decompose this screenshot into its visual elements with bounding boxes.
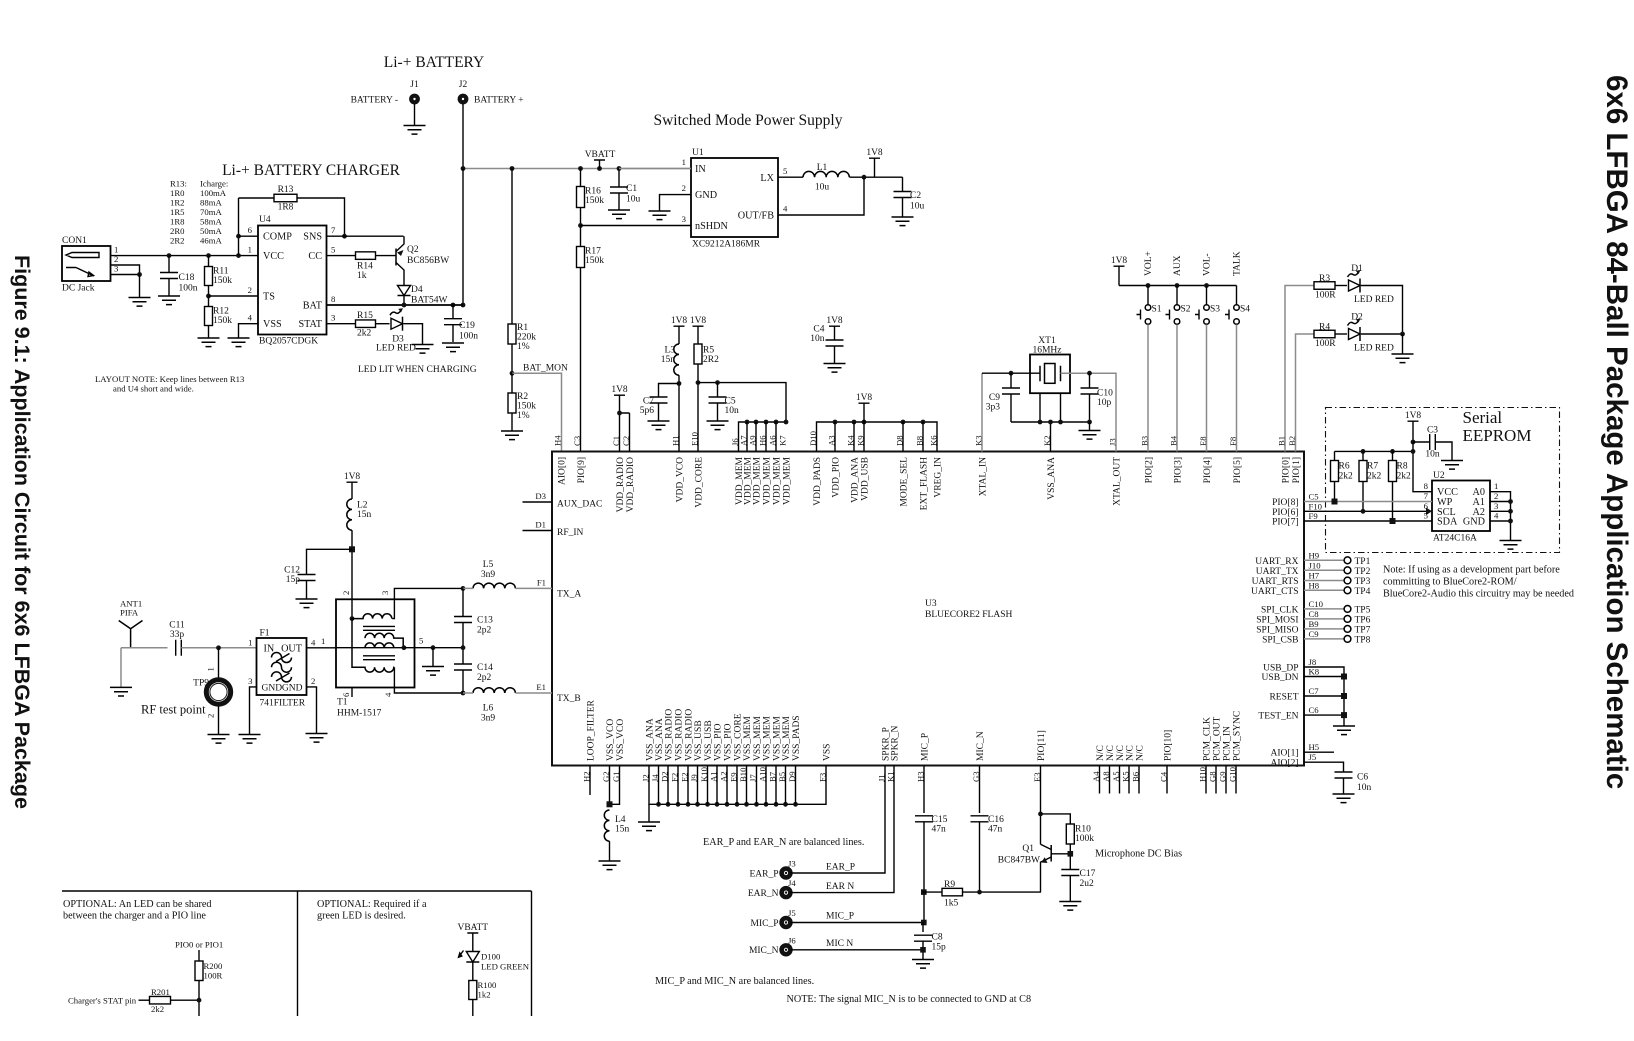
wire TS pin (209, 295, 259, 297)
ground F1 pin2 (306, 734, 328, 743)
svg-text:U4: U4 (259, 215, 271, 225)
svg-text:S2: S2 (1181, 305, 1191, 315)
svg-text:2k2: 2k2 (1339, 472, 1354, 482)
ground U2 (1500, 541, 1522, 550)
svg-text:VSS_ANA: VSS_ANA (646, 718, 656, 761)
svg-text:K7: K7 (778, 435, 788, 446)
resistor R201 body (150, 996, 171, 1004)
wire COMP pin (239, 235, 259, 237)
wire EAR_P to SPKR_P J1 (791, 766, 886, 874)
svg-text:150k: 150k (585, 196, 604, 206)
wire to TP6 (1304, 618, 1344, 620)
svg-text:VCC: VCC (263, 251, 284, 262)
svg-text:2: 2 (1494, 491, 1498, 501)
svg-text:1V8: 1V8 (690, 316, 707, 326)
svg-text:nSHDN: nSHDN (695, 221, 728, 232)
wire 1V8 to C1 C2 pins (620, 395, 630, 451)
svg-text:5: 5 (419, 636, 423, 646)
svg-text:MIC_P: MIC_P (921, 733, 931, 761)
svg-text:2: 2 (248, 285, 252, 295)
svg-text:VDD_VCO: VDD_VCO (676, 457, 686, 503)
svg-text:C18: C18 (179, 273, 195, 283)
svg-text:PIO[2]: PIO[2] (1145, 457, 1155, 483)
svg-text:C17: C17 (1080, 869, 1096, 879)
svg-text:10n: 10n (810, 334, 825, 344)
resistor R15 body (356, 320, 376, 328)
svg-text:58mA: 58mA (200, 217, 222, 227)
svg-text:BlueCore2-Audio this circuitry: BlueCore2-Audio this circuitry may be ne… (1383, 589, 1574, 600)
ground C3 (1441, 461, 1463, 470)
resistor R11 body (205, 267, 213, 286)
T1 pin4 wire (394, 688, 463, 694)
switch S4 TALK (1236, 286, 1238, 305)
wire CON1 pin1 to U4 VCC (111, 255, 259, 257)
svg-text:2k2: 2k2 (1397, 472, 1412, 482)
ground antenna (110, 687, 132, 696)
svg-text:10u: 10u (910, 202, 925, 212)
ground C2 (892, 217, 914, 226)
svg-text:XTAL_IN: XTAL_IN (979, 457, 989, 496)
svg-text:XC9212A186MR: XC9212A186MR (692, 240, 761, 250)
testpoint TP2 (1344, 567, 1351, 574)
resistor R13 1R8 (239, 197, 275, 199)
wire VSS ground bus (649, 766, 826, 805)
power 1V8 C4 (829, 326, 840, 340)
diode D4 BAT54W (398, 286, 411, 296)
ground VSS bus (638, 822, 660, 831)
svg-text:MIC_P: MIC_P (826, 912, 854, 922)
svg-text:VSS_MEM: VSS_MEM (743, 716, 753, 761)
U3 left pin AUX_DAC D3 (523, 501, 553, 503)
capacitor C6 10n (1335, 772, 1353, 778)
svg-text:LOOP_FILTER: LOOP_FILTER (587, 699, 597, 761)
ground LEDs (1392, 354, 1414, 363)
svg-text:70mA: 70mA (200, 207, 222, 217)
svg-text:J1: J1 (410, 80, 419, 90)
ground TP9 (208, 735, 230, 744)
capacitor C10 10p (1089, 373, 1091, 388)
ground C17 (1059, 902, 1081, 911)
svg-text:R12: R12 (213, 307, 229, 317)
svg-text:TALK: TALK (1233, 251, 1243, 276)
wire VDD_MEM bus (739, 422, 787, 452)
svg-text:50mA: 50mA (200, 226, 222, 236)
svg-text:1V8: 1V8 (856, 393, 873, 403)
wire D3 to ground (404, 324, 423, 345)
wire D2 cathode (1361, 333, 1403, 335)
svg-text:5: 5 (783, 166, 787, 176)
svg-text:LED RED: LED RED (1354, 295, 1394, 305)
svg-text:VSS_PIO: VSS_PIO (724, 723, 734, 761)
resistor R100 1k2 (469, 981, 477, 1000)
svg-text:15n: 15n (357, 510, 372, 520)
svg-text:VSS: VSS (823, 744, 833, 761)
svg-text:6x6 LFBGA 84-Ball Package Appl: 6x6 LFBGA 84-Ball Package Application Sc… (1600, 75, 1633, 789)
svg-text:N/C: N/C (1106, 745, 1116, 761)
svg-text:4: 4 (1494, 511, 1499, 521)
svg-text:C6: C6 (1357, 773, 1368, 783)
wire J2 to BAT pin (327, 169, 464, 306)
svg-text:150k: 150k (585, 256, 604, 266)
diode D2 LED RED (1349, 329, 1361, 340)
svg-text:3n9: 3n9 (481, 570, 496, 580)
ground CON1 (129, 298, 151, 307)
svg-text:100R: 100R (1315, 291, 1336, 301)
svg-text:6: 6 (248, 225, 253, 235)
svg-text:N/C: N/C (1096, 745, 1106, 761)
capacitor C17 2u2 (1061, 870, 1079, 876)
svg-text:GND: GND (262, 684, 283, 694)
capacitor C11 33p (176, 640, 182, 656)
wire S2 to chip (1176, 325, 1178, 452)
svg-text:10n: 10n (1425, 450, 1440, 460)
wire SNS pin (327, 235, 345, 237)
svg-text:1: 1 (248, 245, 252, 255)
svg-text:Charger's STAT pin: Charger's STAT pin (68, 996, 137, 1006)
svg-text:100R: 100R (204, 971, 223, 981)
svg-text:8: 8 (331, 294, 336, 304)
svg-text:OUT/FB: OUT/FB (738, 211, 774, 222)
svg-text:L4: L4 (615, 815, 626, 825)
svg-text:BC847BW: BC847BW (998, 856, 1040, 866)
diode D100 LED GREEN (466, 952, 479, 963)
svg-text:Note: If using as a developmen: Note: If using as a development part bef… (1383, 565, 1560, 576)
node optional boxes frame (62, 891, 532, 1016)
svg-text:F9: F9 (1309, 511, 1318, 521)
svg-text:H4: H4 (553, 435, 563, 446)
svg-text:7: 7 (1424, 491, 1429, 501)
resistor R7 2k2 (1362, 451, 1364, 460)
svg-text:150k: 150k (213, 276, 232, 286)
wire T1 pin3 inside (392, 599, 394, 618)
inductor L1 10u (778, 176, 803, 178)
svg-text:Q2: Q2 (407, 245, 419, 255)
svg-text:MODE_SEL: MODE_SEL (900, 457, 910, 507)
ground F1 pin3 (239, 735, 261, 744)
ground U4 VSS (228, 338, 250, 347)
filter F1 741FILTER (257, 638, 307, 695)
T1 pin6 stub (351, 688, 353, 698)
wire USB_DP USB_DN RESET TEST_EN to ground (1304, 667, 1344, 726)
svg-text:PIFA: PIFA (120, 608, 139, 618)
power 1V8 VDD_RADIO (614, 394, 625, 396)
svg-text:VSS_CORE: VSS_CORE (734, 713, 744, 761)
svg-text:R100: R100 (478, 980, 497, 990)
switch S1 VOL+ (1147, 286, 1149, 305)
svg-text:PIO[9]: PIO[9] (577, 457, 587, 483)
wire VBATT to IN (619, 168, 691, 170)
connector J1 BATTERY - (411, 96, 418, 103)
svg-text:MIC_N: MIC_N (749, 946, 779, 956)
svg-text:C6: C6 (1309, 705, 1320, 715)
svg-text:L3: L3 (664, 346, 675, 356)
svg-text:TP8: TP8 (1355, 635, 1371, 645)
U3 left pin RF_IN D1 (523, 530, 553, 532)
svg-text:TX_B: TX_B (557, 694, 581, 704)
svg-text:GND: GND (282, 684, 303, 694)
resistor R201 2k2 (139, 999, 150, 1001)
svg-text:R14: R14 (357, 262, 373, 272)
svg-text:SPI_CSB: SPI_CSB (1262, 635, 1298, 645)
CON1 barrel pin symbol (66, 253, 99, 258)
svg-text:VDD_RADIO: VDD_RADIO (626, 457, 636, 513)
capacitor C7 5p6 (659, 384, 680, 398)
svg-text:VSS: VSS (263, 319, 282, 330)
ground C12 (296, 599, 318, 608)
wire EAR_N to SPKR_N K1 (791, 766, 895, 893)
svg-text:1V8: 1V8 (1405, 411, 1422, 421)
wire CON1 to ground (139, 275, 141, 298)
wire C15 to MIC_P (923, 822, 925, 923)
svg-text:C5: C5 (1309, 492, 1319, 502)
connector CON1 DC Jack (62, 246, 111, 281)
wire MIC_P line (791, 922, 924, 924)
wire PIO[7] to SDA (1304, 520, 1432, 522)
svg-text:C5: C5 (725, 397, 736, 407)
F1 filter squiggles (272, 653, 292, 682)
svg-text:TP1: TP1 (1355, 557, 1371, 567)
svg-text:R4: R4 (1319, 323, 1330, 333)
svg-text:47n: 47n (988, 825, 1003, 835)
resistor R15 2k2 (327, 323, 356, 325)
resistor R1 220k 1% (511, 169, 513, 325)
svg-text:and U4 short and wide.: and U4 short and wide. (113, 384, 194, 394)
wire C11 to F1 IN (181, 647, 256, 649)
svg-text:7: 7 (331, 225, 336, 235)
svg-text:R9: R9 (944, 880, 955, 890)
svg-text:15p: 15p (932, 943, 947, 953)
capacitor C9 3p3 (1010, 373, 1012, 388)
ground C5 (707, 421, 729, 430)
wire S1 to chip (1147, 325, 1149, 452)
svg-text:NOTE: The signal MIC_N is to b: NOTE: The signal MIC_N is to be connecte… (787, 994, 1032, 1005)
resistor R14 body (356, 252, 376, 260)
svg-text:R15: R15 (357, 311, 373, 321)
wire VSS_VCO to L4 (610, 766, 620, 805)
CON1 switch contact (66, 268, 94, 277)
testpoint TP7 (1344, 626, 1351, 633)
svg-text:RESET: RESET (1269, 693, 1298, 703)
svg-text:green LED is desired.: green LED is desired. (317, 911, 406, 922)
wire U4 VSS to ground (239, 324, 259, 338)
svg-text:C10: C10 (1097, 389, 1113, 399)
svg-text:1: 1 (1494, 481, 1498, 491)
svg-text:LAYOUT NOTE: Keep lines betwee: LAYOUT NOTE: Keep lines between R13 (95, 374, 244, 384)
svg-text:MIC_P: MIC_P (751, 919, 779, 929)
svg-text:1V8: 1V8 (671, 316, 688, 326)
svg-text:R11: R11 (213, 267, 229, 277)
svg-text:TS: TS (263, 292, 275, 303)
svg-text:C3: C3 (1427, 426, 1438, 436)
svg-text:R200: R200 (204, 961, 223, 971)
resistor R11 150k (208, 256, 210, 267)
svg-text:R17: R17 (585, 247, 601, 257)
svg-text:BATTERY +: BATTERY + (474, 96, 524, 106)
wire TP9 to ground (218, 707, 220, 735)
svg-text:Serial: Serial (1463, 408, 1503, 427)
svg-text:TP2: TP2 (1355, 567, 1371, 577)
wire R13 left to VCC (238, 198, 240, 256)
svg-text:BLUECORE2 FLASH: BLUECORE2 FLASH (925, 610, 1012, 620)
svg-text:TX_A: TX_A (557, 590, 581, 600)
svg-text:2R0: 2R0 (170, 226, 185, 236)
ground C7 (648, 421, 670, 430)
svg-text:UART_CTS: UART_CTS (1251, 587, 1298, 597)
testpoint TP4 (1344, 587, 1351, 594)
wire F1 OUT to T1 pin1 (307, 647, 337, 649)
svg-text:1V8: 1V8 (1111, 256, 1128, 266)
connector J4 EAR_N jack (782, 888, 791, 897)
svg-text:CC: CC (308, 251, 322, 262)
switch S3 VOL- (1206, 286, 1208, 305)
svg-text:TP3: TP3 (1355, 577, 1371, 587)
svg-text:UART_RX: UART_RX (1255, 557, 1298, 567)
svg-text:1k: 1k (357, 271, 367, 281)
svg-text:EAR_P: EAR_P (749, 870, 778, 880)
capacitor C15 47n (923, 766, 925, 814)
svg-text:DC Jack: DC Jack (62, 284, 95, 294)
svg-text:H5: H5 (1309, 742, 1320, 752)
svg-text:C2: C2 (910, 191, 921, 201)
svg-text:VDD_MEM: VDD_MEM (753, 456, 763, 505)
svg-text:1%: 1% (517, 342, 530, 352)
power 1V8 L3 (674, 326, 685, 344)
svg-text:EXT_FLASH: EXT_FLASH (920, 457, 930, 510)
capacitor C19 plates (444, 319, 462, 325)
svg-text:PIO[1]: PIO[1] (1292, 457, 1302, 483)
svg-text:88mA: 88mA (200, 198, 222, 208)
svg-text:BC856BW: BC856BW (407, 256, 449, 266)
svg-text:2R2: 2R2 (703, 355, 719, 365)
T1 core 2 (363, 656, 395, 660)
diode D1 LED RED (1349, 280, 1361, 291)
svg-text:1k5: 1k5 (944, 899, 959, 909)
wire F1 pin3 to ground (250, 687, 257, 735)
svg-text:VDD_MEM: VDD_MEM (763, 456, 773, 505)
svg-text:J3: J3 (788, 859, 796, 869)
svg-text:VSS_ANA: VSS_ANA (655, 718, 665, 761)
IC U1 XC9212A186MR (691, 158, 778, 237)
capacitor C1 10u (618, 169, 620, 188)
wire F1 pin2 to ground (307, 687, 317, 734)
wire EEPROM pullup bus (1335, 442, 1433, 492)
capacitor C18 100n (168, 256, 170, 273)
inductor L3 body (674, 344, 679, 375)
svg-text:R201: R201 (151, 987, 170, 997)
power 1V8 L2 (347, 482, 358, 499)
svg-text:B9: B9 (1309, 619, 1319, 629)
svg-text:1: 1 (321, 636, 325, 646)
wire C16 to bias junction (979, 822, 981, 892)
svg-text:EAR N: EAR N (826, 882, 854, 892)
svg-text:VSS_PADS: VSS_PADS (792, 715, 802, 761)
capacitor C3 10n (1413, 441, 1430, 443)
svg-text:USB_DP: USB_DP (1263, 664, 1298, 674)
svg-text:2u2: 2u2 (1080, 879, 1095, 889)
svg-text:5: 5 (331, 245, 335, 255)
inductor L2 body (347, 499, 352, 530)
inductor L5 body (473, 583, 515, 588)
svg-text:TP9: TP9 (193, 679, 209, 689)
svg-text:R6: R6 (1339, 462, 1350, 472)
svg-text:R5: R5 (703, 346, 714, 356)
capacitor C14 2p2 (462, 648, 464, 664)
svg-text:RF_IN: RF_IN (557, 528, 584, 538)
svg-text:5p6: 5p6 (640, 406, 655, 416)
IC U2 AT24C16A (1432, 481, 1490, 532)
svg-text:VSS_MEM: VSS_MEM (773, 716, 783, 761)
svg-text:EAR_P: EAR_P (826, 863, 855, 873)
svg-text:C1: C1 (626, 184, 637, 194)
svg-text:SDA: SDA (1437, 517, 1458, 528)
svg-text:D2: D2 (1351, 313, 1363, 323)
svg-text:AUX: AUX (1173, 255, 1183, 276)
svg-text:33p: 33p (170, 630, 185, 640)
resistor R10 100k (1041, 814, 1071, 824)
svg-text:between the charger and a PIO: between the charger and a PIO line (63, 911, 206, 922)
ground C19 (442, 343, 464, 352)
svg-text:PIO[4]: PIO[4] (1203, 457, 1213, 483)
svg-text:SPI_CLK: SPI_CLK (1261, 605, 1299, 615)
wire J1 to ground (414, 104, 416, 126)
svg-text:C8: C8 (932, 933, 943, 943)
svg-text:8: 8 (1424, 481, 1429, 491)
svg-text:L5: L5 (483, 560, 494, 570)
svg-text:150k: 150k (213, 316, 232, 326)
IC U3 BLUECORE2 FLASH body (552, 452, 1304, 766)
svg-text:2k2: 2k2 (357, 329, 372, 339)
svg-text:VDD_CORE: VDD_CORE (695, 457, 705, 508)
svg-text:D1: D1 (535, 520, 546, 530)
wire XTAL_OUT J3 (1061, 373, 1117, 451)
T1 pin2 wire (351, 599, 353, 618)
svg-text:N/C: N/C (1116, 745, 1126, 761)
svg-text:4: 4 (248, 313, 253, 323)
svg-text:TP4: TP4 (1355, 587, 1371, 597)
wire nSHDN (581, 225, 692, 227)
svg-text:committing to BlueCore2-ROM/: committing to BlueCore2-ROM/ (1383, 577, 1517, 588)
svg-text:AIO[1]: AIO[1] (1271, 749, 1299, 759)
svg-text:EAR_N: EAR_N (748, 889, 779, 899)
svg-text:U1: U1 (692, 148, 704, 158)
svg-text:J8: J8 (1309, 657, 1317, 667)
capacitor C13 2p2 (462, 588, 464, 616)
svg-text:VSS_MEM: VSS_MEM (782, 716, 792, 761)
svg-text:LED LIT WHEN CHARGING: LED LIT WHEN CHARGING (358, 365, 477, 375)
svg-text:10n: 10n (1357, 783, 1372, 793)
svg-text:4: 4 (311, 638, 316, 648)
svg-text:BAT54W: BAT54W (411, 296, 447, 306)
svg-text:R13:: R13: (170, 179, 187, 189)
ground L4 (599, 861, 621, 870)
wire LED to ground (1402, 334, 1404, 354)
ground USB tie (1333, 726, 1355, 735)
svg-text:K8: K8 (1309, 667, 1320, 677)
power 1V8 R5 (693, 326, 704, 344)
svg-text:2R2: 2R2 (170, 236, 184, 246)
wire OUT/FB feedback (778, 177, 864, 215)
svg-text:C11: C11 (169, 621, 185, 631)
svg-text:1V8: 1V8 (866, 148, 883, 158)
resistor R12 body (205, 307, 213, 326)
svg-text:10n: 10n (725, 406, 740, 416)
wire to TP1 (1304, 559, 1344, 561)
ground R2 (501, 431, 523, 440)
svg-text:L6: L6 (483, 704, 494, 714)
ground MIC_N (912, 960, 934, 969)
svg-text:UART_TX: UART_TX (1256, 567, 1299, 577)
testpoint TP5 (1344, 606, 1351, 613)
